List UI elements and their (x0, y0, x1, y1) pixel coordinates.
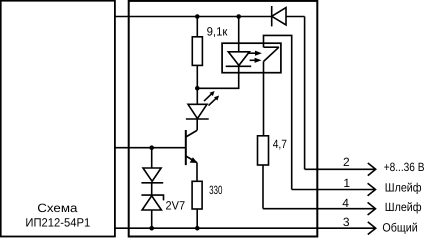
junction dot bottom left (149, 226, 154, 231)
wire bottom common (115, 227, 376, 229)
wire vertical drop to terminal 2 (304, 17, 306, 170)
svg-text:330: 330 (209, 183, 223, 197)
junction dot top resistor (195, 14, 200, 19)
transistor VT1 (186, 119, 197, 181)
svg-text:Шлейф: Шлейф (385, 181, 422, 195)
diode VD1 top (272, 6, 286, 26)
wire terminal 2 line (305, 168, 376, 170)
arrowhead transistor emitter (190, 157, 198, 163)
svg-text:ИП212-54Р1: ИП212-54Р1 (25, 215, 90, 229)
svg-text:Шлейф: Шлейф (385, 200, 422, 214)
optocoupler LED side (226, 17, 252, 67)
arrowhead opto arrow 2 (255, 58, 262, 63)
optocoupler U1 box (222, 43, 281, 72)
diode VD2 (141, 148, 163, 183)
svg-text:3: 3 (343, 215, 350, 229)
svg-text:Схема: Схема (37, 201, 77, 215)
svg-text:4: 4 (342, 196, 349, 210)
LED HL1 indicator (186, 88, 217, 119)
arrowhead opto arrow 1 (255, 51, 262, 56)
resistor R3 4,7 (258, 136, 269, 209)
junction dot bottom right (195, 226, 200, 231)
arrow terminal 4 (368, 202, 376, 215)
svg-text:9,1к: 9,1к (207, 25, 229, 39)
junction dot top optocoupler (236, 14, 241, 19)
resistor R2 330 (192, 181, 202, 228)
arrowhead LED light 1 (210, 91, 215, 96)
optocoupler phototransistor (264, 47, 279, 136)
svg-text:2V7: 2V7 (166, 199, 186, 213)
arrow terminal 3 (368, 222, 376, 235)
svg-text:+8...36 В: +8...36 В (384, 160, 425, 174)
svg-text:1: 1 (343, 176, 350, 190)
box detector Схема ИП212-54Р1 (1, 1, 115, 237)
junction dot base wire (149, 145, 154, 150)
arrowhead LED light 2 (214, 96, 219, 101)
wire top supply from detector box (115, 16, 272, 18)
arrow terminal 2 (368, 163, 376, 176)
wire terminal 1 line (292, 189, 376, 191)
resistor R1 9,1k (192, 17, 202, 89)
svg-text:2: 2 (343, 155, 350, 169)
junction dot resistor LED (195, 86, 200, 91)
zener VD3 2V7 (141, 183, 163, 228)
wire top right diode to corner (286, 16, 305, 18)
wire LED cathode return (197, 66, 238, 88)
box main circuit (129, 1, 318, 237)
svg-text:Общий: Общий (382, 221, 417, 235)
optocoupler light arrows (248, 53, 256, 60)
wire collector to terminal 1 (264, 35, 292, 189)
wire terminal 4 line (263, 208, 376, 210)
wire base from detector box (115, 147, 186, 149)
arrow terminal 1 (368, 183, 376, 196)
svg-text:4,7: 4,7 (273, 137, 287, 151)
